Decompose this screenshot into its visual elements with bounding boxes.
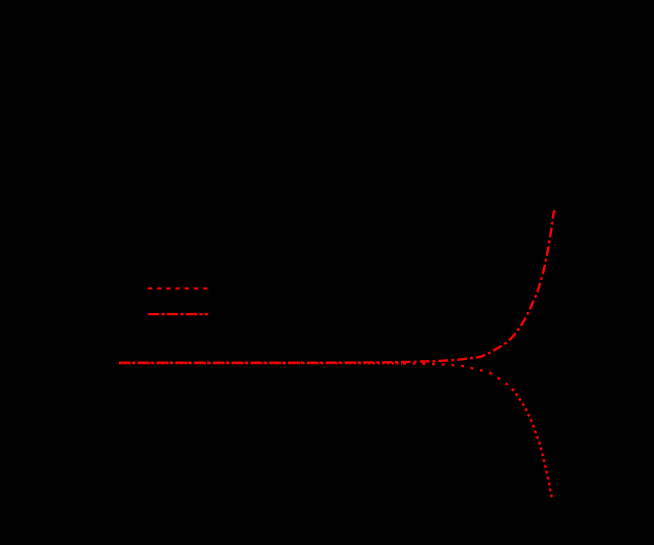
curve: upper branch (dash-dot, flat then diverges upward) [119,210,555,363]
curve: lower branch steep tail (dotted) [510,387,552,498]
legend sample: dash-dot series [148,313,208,315]
curve: lower branch mid slope (dotted, wider spacing) [402,363,510,387]
legend sample: dashed series [148,287,208,289]
curve: lower branch flat section (dotted, phase-locked under dash-dot) [119,362,402,365]
